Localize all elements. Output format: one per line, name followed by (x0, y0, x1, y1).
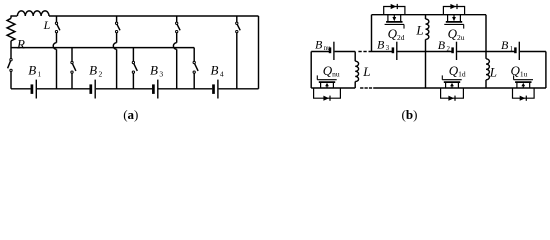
svg-text:L: L (43, 18, 51, 32)
svg-text:(b): (b) (402, 107, 418, 122)
svg-text:B: B (377, 37, 385, 51)
svg-text:B: B (28, 62, 36, 77)
svg-text:B: B (501, 38, 509, 52)
svg-text:1: 1 (38, 70, 42, 79)
svg-text:4: 4 (220, 70, 224, 79)
svg-text:nu: nu (332, 70, 340, 79)
svg-text:L: L (415, 22, 423, 37)
svg-text:B: B (438, 38, 446, 52)
svg-text:L: L (489, 65, 497, 80)
svg-text:B: B (150, 62, 158, 77)
svg-text:B: B (211, 62, 219, 77)
svg-text:nu: nu (324, 44, 332, 52)
svg-text:2: 2 (446, 45, 450, 53)
svg-text:1u: 1u (520, 70, 528, 79)
svg-text:3: 3 (386, 44, 390, 52)
svg-text:(a): (a) (123, 107, 138, 122)
svg-text:B: B (315, 37, 323, 51)
svg-text:2u: 2u (457, 33, 465, 42)
svg-text:1: 1 (510, 45, 514, 53)
svg-text:2: 2 (98, 70, 102, 79)
svg-text:1d: 1d (458, 70, 466, 79)
svg-text:3: 3 (159, 70, 163, 79)
svg-text:R: R (16, 36, 25, 51)
svg-text:L: L (362, 64, 370, 79)
svg-text:2d: 2d (397, 33, 405, 42)
svg-text:B: B (89, 62, 97, 77)
